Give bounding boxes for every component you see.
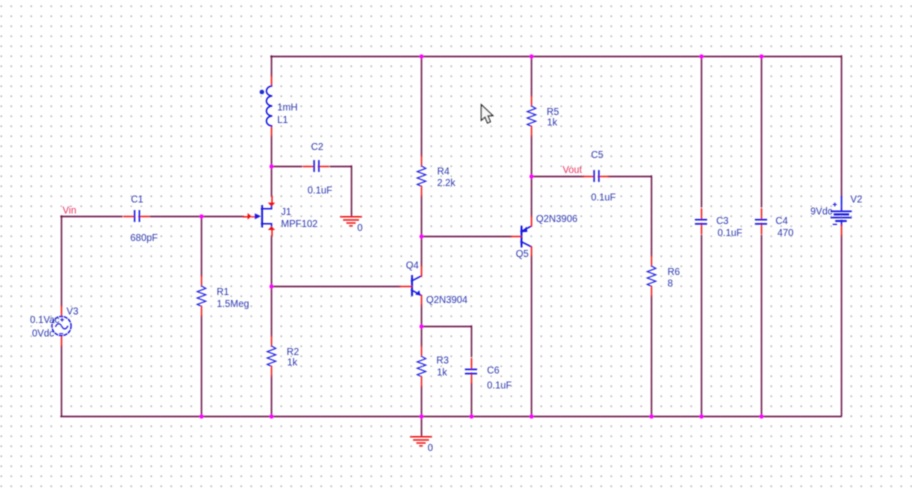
svg-text:R2: R2 [287,347,299,358]
svg-text:1mH: 1mH [277,102,297,113]
svg-text:Q4: Q4 [406,261,420,272]
svg-text:R5: R5 [547,107,559,118]
svg-text:C2: C2 [311,142,323,153]
svg-text:Q2N3906: Q2N3906 [536,214,577,225]
svg-text:C4: C4 [776,216,789,227]
svg-text:0: 0 [428,443,434,454]
svg-text:R3: R3 [436,355,448,366]
svg-text:0.1uF: 0.1uF [308,185,333,196]
svg-text:C1: C1 [131,194,143,205]
svg-text:0.1uF: 0.1uF [718,228,743,239]
svg-text:R1: R1 [217,287,229,298]
svg-text:Vout: Vout [563,165,583,176]
svg-text:1k: 1k [547,117,557,128]
svg-text:V3: V3 [67,306,79,317]
svg-text:0.1uF: 0.1uF [487,381,512,392]
svg-text:C5: C5 [591,150,603,161]
svg-text:L1: L1 [277,115,288,126]
svg-text:8: 8 [668,279,673,290]
svg-text:1k: 1k [287,358,297,369]
svg-text:0Vdc: 0Vdc [32,328,54,339]
svg-text:0.1uF: 0.1uF [591,192,616,203]
svg-text:0: 0 [357,223,363,234]
svg-text:2.2k: 2.2k [437,178,455,189]
svg-text:Vin: Vin [63,205,77,216]
svg-text:1.5Meg: 1.5Meg [217,299,249,310]
svg-text:470: 470 [777,228,794,239]
svg-text:MPF102: MPF102 [281,219,318,230]
svg-text:R4: R4 [437,166,450,177]
svg-text:C6: C6 [487,365,499,376]
svg-text:9Vdc: 9Vdc [810,206,832,217]
svg-text:680pF: 680pF [130,233,158,244]
svg-text:V2: V2 [850,195,862,206]
svg-text:C3: C3 [716,216,728,227]
svg-text:Q5: Q5 [516,249,529,260]
svg-text:Q2N3904: Q2N3904 [426,295,468,306]
svg-text:R6: R6 [668,267,680,278]
svg-text:J1: J1 [281,207,291,218]
svg-text:0.1Vac: 0.1Vac [30,315,60,326]
svg-text:1k: 1k [437,368,447,379]
